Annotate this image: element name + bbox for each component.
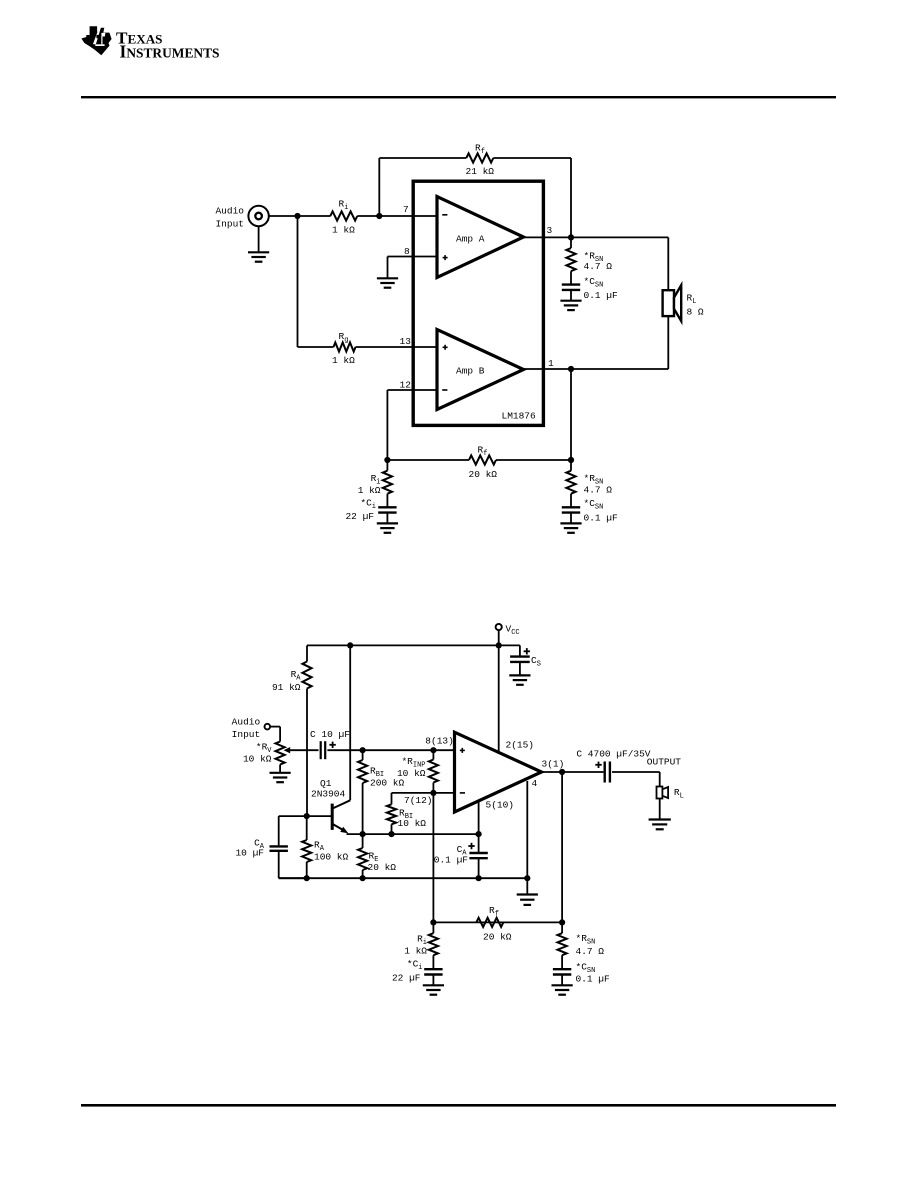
resistor Rf 20 k-ohm (bottom circuit) bbox=[476, 918, 503, 927]
svg-text:3: 3 bbox=[547, 225, 553, 236]
svg-text:2(15): 2(15) bbox=[506, 740, 535, 751]
capacitor Ci 22 uF (bottom circuit) bbox=[424, 969, 442, 985]
node base junction bbox=[304, 813, 310, 819]
svg-text:Ri: Ri bbox=[339, 199, 349, 213]
wire output riser to snubber row bbox=[561, 772, 563, 922]
wire pin 4 riser bbox=[526, 781, 528, 879]
capacitor CSN 0.1 uF (upper snubber) bbox=[562, 285, 580, 301]
ground at audio input bbox=[248, 252, 269, 261]
svg-text:*RSN: *RSN bbox=[576, 933, 596, 947]
resistor RSN 4.7 ohm (upper snubber) bbox=[566, 237, 575, 284]
svg-text:10 kΩ: 10 kΩ bbox=[398, 818, 427, 829]
node bottom rail RA bbox=[304, 875, 310, 881]
wire output B riser to feedback bbox=[570, 369, 572, 460]
wire feedback riser left bbox=[378, 158, 380, 216]
svg-text:Rf: Rf bbox=[489, 905, 499, 919]
plus sign of output cap bbox=[595, 762, 601, 768]
op-amp Amp A bbox=[437, 197, 524, 278]
wire minus node riser to feedback row bbox=[432, 793, 434, 923]
wire speaker riser top bbox=[667, 237, 669, 290]
wire top feedback left segment bbox=[379, 157, 466, 159]
wire bottom rail bbox=[279, 877, 528, 879]
svg-text:*CSN: *CSN bbox=[584, 276, 604, 290]
ground at upper snubber bbox=[560, 301, 581, 310]
wire feedback riser right to pin 3 bbox=[570, 158, 572, 237]
resistor RBI 10 k-ohm bbox=[387, 793, 396, 834]
node emitter junction bbox=[360, 831, 366, 837]
resistor Ri 1 k-ohm (feedback shunt) bbox=[383, 460, 392, 507]
node output junction bbox=[559, 769, 565, 775]
resistor RBI 200 k-ohm bbox=[358, 750, 367, 834]
svg-text:21 kΩ: 21 kΩ bbox=[466, 166, 495, 177]
ground at CSN bottom circuit bbox=[552, 985, 573, 994]
transistor Q1 2N3904 bbox=[307, 645, 351, 833]
svg-text:*Ci: *Ci bbox=[407, 959, 423, 973]
svg-text:20 kΩ: 20 kΩ bbox=[483, 932, 512, 943]
TI logo wordmark TEXAS INSTRUMENTS bbox=[116, 29, 220, 62]
node bottom rail RE bbox=[360, 875, 366, 881]
wire emitter row bbox=[347, 833, 479, 835]
ground at RV bbox=[270, 773, 291, 782]
svg-text:OUTPUT: OUTPUT bbox=[647, 757, 682, 768]
ground at lower snubber bbox=[560, 523, 581, 532]
svg-text:22 µF: 22 µF bbox=[392, 973, 421, 984]
svg-text:200 kΩ: 200 kΩ bbox=[370, 778, 405, 789]
wire cap C to op-amp plus input bbox=[327, 749, 454, 751]
svg-text:12: 12 bbox=[400, 380, 412, 391]
node output B junction bbox=[568, 366, 574, 372]
resistor Rg 1 k-ohm bbox=[334, 342, 356, 351]
audio input jack J1 bbox=[248, 206, 268, 226]
svg-text:7: 7 bbox=[403, 204, 409, 215]
svg-text:1: 1 bbox=[548, 358, 554, 369]
plus sign of CA 0.1uF bbox=[468, 843, 474, 849]
resistor Ri 1 k-ohm bbox=[330, 211, 357, 220]
wire speaker to ground bbox=[659, 799, 661, 820]
TI logo Texas map bbox=[81, 26, 111, 55]
svg-text:10 µF: 10 µF bbox=[235, 848, 264, 859]
resistor RE 20 k-ohm bbox=[358, 834, 367, 878]
footer rule bbox=[81, 1104, 836, 1107]
wire to Rg bbox=[298, 346, 334, 348]
VCC terminal bbox=[496, 624, 502, 646]
label Audio Input (bottom) bbox=[232, 717, 261, 741]
svg-text:1 kΩ: 1 kΩ bbox=[332, 225, 355, 236]
node feedback junction A bbox=[376, 213, 382, 219]
capacitor CA 0.1 uF bbox=[469, 834, 487, 878]
svg-text:Amp B: Amp B bbox=[456, 366, 485, 377]
node input junction bbox=[294, 213, 300, 219]
capacitor C 4700 uF output bbox=[605, 762, 610, 783]
svg-text:20 kΩ: 20 kΩ bbox=[469, 469, 498, 480]
speaker RL output bbox=[657, 787, 669, 799]
svg-text:8: 8 bbox=[404, 246, 410, 257]
ground at bottom rail bbox=[517, 878, 538, 905]
node feedback row right (bottom) bbox=[559, 919, 565, 925]
svg-text:1 kΩ: 1 kΩ bbox=[404, 946, 427, 957]
wire bottom feedback row right bbox=[496, 459, 571, 461]
op-amp U1 power amp bbox=[455, 732, 542, 812]
node RINP junction 8(13) bbox=[430, 747, 436, 753]
header rule bbox=[81, 96, 836, 98]
svg-text:7(12): 7(12) bbox=[404, 795, 433, 806]
svg-text:1 kΩ: 1 kΩ bbox=[332, 355, 355, 366]
svg-text:C 4700 µF/35V: C 4700 µF/35V bbox=[576, 749, 650, 760]
capacitor CSN 0.1 uF (lower snubber) bbox=[562, 507, 580, 523]
svg-text:13: 13 bbox=[400, 336, 412, 347]
svg-text:Audio: Audio bbox=[215, 206, 244, 217]
capacitor Ci 22 uF bbox=[378, 507, 396, 523]
svg-text:RA: RA bbox=[291, 669, 302, 683]
svg-text:0.1 µF: 0.1 µF bbox=[584, 290, 619, 301]
wire pin 12 horizontal bbox=[387, 389, 437, 391]
svg-text:VCC: VCC bbox=[506, 624, 520, 638]
svg-text:2N3904: 2N3904 bbox=[311, 789, 346, 800]
svg-text:1 kΩ: 1 kΩ bbox=[358, 485, 381, 496]
resistor Rf 20 k-ohm bottom bbox=[469, 455, 496, 464]
wire pin 8 to ground bbox=[388, 256, 438, 258]
svg-text:0.1 µF: 0.1 µF bbox=[576, 974, 611, 985]
svg-text:Q1: Q1 bbox=[320, 778, 332, 789]
ground at CS bbox=[509, 675, 530, 684]
svg-text:91 kΩ: 91 kΩ bbox=[272, 682, 301, 693]
capacitor CSN 0.1 uF (bottom circuit) bbox=[553, 969, 571, 985]
wire jack to Ri bbox=[269, 215, 331, 217]
wire op-amp output bbox=[542, 771, 604, 773]
ground at Ci bbox=[377, 523, 398, 532]
node bottom rail pin4 bbox=[524, 875, 530, 881]
node pin5 emitter row junction bbox=[476, 831, 482, 837]
svg-text:RL: RL bbox=[674, 787, 684, 801]
svg-text:C 10 µF: C 10 µF bbox=[310, 729, 350, 740]
potentiometer RV 10 k-ohm bbox=[276, 742, 291, 773]
svg-text:Audio: Audio bbox=[232, 717, 261, 728]
node RBI junction bbox=[360, 747, 366, 753]
wire jack to ground bbox=[258, 226, 260, 252]
ground at output speaker bbox=[649, 820, 671, 830]
node minus input junction bbox=[430, 790, 436, 796]
svg-text:8 Ω: 8 Ω bbox=[687, 307, 704, 318]
svg-text:Amp A: Amp A bbox=[456, 234, 485, 245]
svg-text:0.1 µF: 0.1 µF bbox=[584, 513, 619, 524]
op-amp Amp B bbox=[437, 330, 524, 410]
node bottom feedback right bbox=[568, 457, 574, 463]
capacitor CA 10 uF bbox=[270, 816, 307, 878]
resistor Ri 1 k-ohm (bottom circuit) bbox=[429, 922, 438, 969]
svg-text:4.7 Ω: 4.7 Ω bbox=[576, 946, 605, 957]
wire Rg to pin 13 bbox=[356, 346, 438, 348]
wire wiper to cap C bbox=[289, 749, 319, 751]
svg-text:100 kΩ: 100 kΩ bbox=[314, 852, 349, 863]
wire Amp A output pin 3 bbox=[524, 236, 669, 238]
audio input terminal (bottom) bbox=[265, 724, 281, 742]
capacitor CS supply bypass bbox=[510, 645, 530, 675]
node collector rail junction bbox=[347, 642, 353, 648]
label Audio Input bbox=[215, 206, 244, 230]
svg-text:RL: RL bbox=[687, 293, 697, 307]
svg-text:LM1876: LM1876 bbox=[502, 411, 537, 422]
wire input junction to Rg riser bbox=[297, 216, 299, 347]
node VCC rail junction bbox=[496, 642, 502, 648]
wire Ri to pin 7 bbox=[357, 215, 437, 217]
plus sign of CS bbox=[524, 648, 530, 654]
wire pin8 ground stem bbox=[387, 257, 389, 279]
svg-text:Input: Input bbox=[232, 729, 261, 740]
ground at pin 8 bbox=[377, 278, 398, 287]
ground at Ci bottom circuit bbox=[423, 985, 444, 994]
svg-text:5(10): 5(10) bbox=[486, 800, 515, 811]
capacitor C 10 uF coupling bbox=[321, 741, 326, 759]
svg-text:3(1): 3(1) bbox=[542, 759, 565, 770]
wire feedback row bottom bbox=[433, 921, 562, 923]
node feedback row left (bottom) bbox=[430, 919, 436, 925]
wire bottom feedback row left bbox=[387, 459, 469, 461]
plus sign of C bbox=[329, 742, 335, 748]
svg-text:CS: CS bbox=[531, 655, 541, 669]
svg-text:*CSN: *CSN bbox=[584, 498, 604, 512]
resistor RA 91 k-ohm bbox=[302, 645, 311, 816]
resistor RSN 4.7 ohm (bottom circuit) bbox=[558, 922, 567, 969]
svg-text:0.1 µF: 0.1 µF bbox=[434, 855, 469, 866]
svg-text:4.7 Ω: 4.7 Ω bbox=[584, 261, 613, 272]
svg-text:4: 4 bbox=[532, 778, 538, 789]
IC U1 LM1876 box bbox=[413, 181, 543, 425]
wire top rail bbox=[307, 644, 520, 646]
svg-text:*Ci: *Ci bbox=[360, 498, 376, 512]
svg-text:8(13): 8(13) bbox=[425, 736, 454, 747]
node bottom feedback left bbox=[384, 457, 390, 463]
wire speaker riser bottom bbox=[667, 316, 669, 369]
svg-text:22 µF: 22 µF bbox=[345, 511, 374, 522]
svg-text:10 kΩ: 10 kΩ bbox=[243, 754, 272, 765]
wire minus input row bbox=[392, 792, 455, 794]
svg-text:Rg: Rg bbox=[339, 331, 349, 345]
wire output cap to speaker bbox=[612, 772, 660, 787]
resistor Rf 21 k-ohm bbox=[466, 153, 493, 162]
svg-text:10 kΩ: 10 kΩ bbox=[397, 768, 426, 779]
resistor RINP 10 k-ohm bbox=[429, 750, 438, 793]
svg-text:4.7 Ω: 4.7 Ω bbox=[584, 485, 613, 496]
wire top feedback right segment bbox=[493, 157, 571, 159]
resistor RA 100 k-ohm bbox=[302, 816, 311, 878]
svg-text:20 kΩ: 20 kΩ bbox=[368, 862, 397, 873]
node bottom rail CA bbox=[476, 875, 482, 881]
speaker RL 8 ohm bbox=[663, 285, 682, 321]
wire pin 2(15) riser bbox=[498, 645, 500, 753]
node output A junction bbox=[568, 234, 574, 240]
wire Amp B output pin 1 bbox=[524, 368, 669, 370]
wire pin 12 riser down bbox=[386, 390, 388, 460]
node RBI bottom junction bbox=[388, 831, 394, 837]
resistor RSN 4.7 ohm (lower snubber) bbox=[566, 460, 575, 507]
wire pin 5(10) riser bbox=[478, 801, 480, 834]
svg-text:Input: Input bbox=[215, 219, 244, 230]
